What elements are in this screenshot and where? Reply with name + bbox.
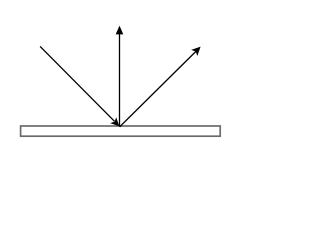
reflected ray wire bbox=[120, 52, 196, 127]
normal line wire bbox=[119, 33, 121, 126]
reflected ray arrowhead bbox=[191, 47, 200, 56]
normal arrowhead bbox=[116, 26, 124, 35]
incident ray arrowhead bbox=[110, 117, 119, 126]
mirror surface rectangle bbox=[21, 126, 221, 136]
incident ray wire bbox=[40, 46, 114, 121]
